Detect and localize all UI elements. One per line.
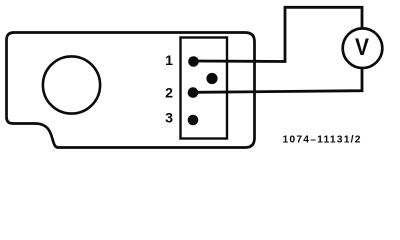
svg-text:3: 3 — [165, 111, 173, 127]
pin 4 dot (center pin) — [206, 73, 217, 84]
svg-text:1: 1 — [165, 53, 173, 69]
connector housing — [181, 38, 228, 139]
svg-text:V: V — [355, 34, 369, 61]
svg-text:1074–11131/2: 1074–11131/2 — [283, 134, 362, 145]
svg-text:2: 2 — [165, 85, 173, 101]
wire voltmeter minus lead to pin2 — [196, 68, 362, 92]
wire pin1 to voltmeter plus lead — [194, 7, 362, 61]
pin 3 dot — [188, 115, 199, 126]
device body outline — [7, 33, 255, 148]
pin 2 dot — [188, 87, 199, 98]
voltmeter V1 — [343, 28, 383, 68]
device circular opening — [43, 56, 100, 113]
pin 1 dot — [188, 56, 199, 67]
